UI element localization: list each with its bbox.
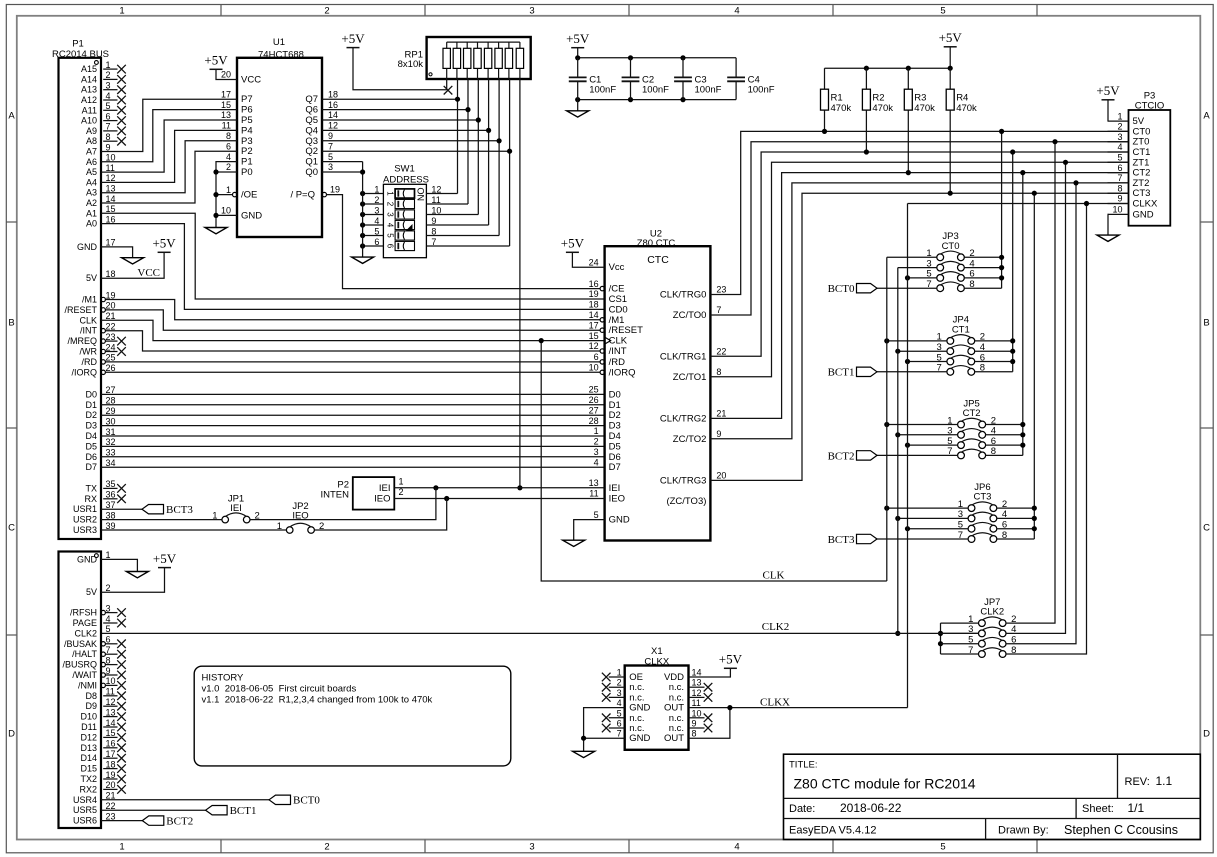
svg-text:11: 11 — [431, 195, 440, 205]
svg-text:v1.0 2018-06-05 First circui: v1.0 2018-06-05 First circuit boards — [202, 684, 357, 695]
svg-text:21: 21 — [106, 791, 116, 801]
wire /IORQ from P1 to U2 — [105, 371, 600, 373]
svg-text:6: 6 — [594, 352, 599, 362]
wire U2 ZC/TO2 to ZT2 row — [710, 183, 1128, 439]
svg-text:16: 16 — [106, 739, 116, 749]
svg-text:D4: D4 — [609, 431, 621, 442]
svg-text:/RD: /RD — [609, 357, 626, 368]
svg-text:USR1: USR1 — [73, 504, 97, 514]
power +5V at P3 pin 1 — [1096, 83, 1120, 121]
svg-text:A13: A13 — [81, 85, 97, 95]
svg-text:2: 2 — [399, 487, 404, 497]
IC U2 right pin names and numbers — [660, 285, 726, 507]
svg-text:30: 30 — [106, 416, 116, 426]
svg-text:+5V: +5V — [939, 30, 963, 45]
jumper JP2 IEO — [277, 501, 325, 533]
svg-text:ZC/TO2: ZC/TO2 — [673, 434, 707, 445]
svg-text:A14: A14 — [81, 74, 97, 84]
power +5V at capacitor rail — [566, 31, 590, 58]
svg-text:14: 14 — [589, 310, 599, 320]
svg-text:27: 27 — [106, 385, 116, 395]
svg-text:IEI: IEI — [609, 483, 621, 494]
svg-text:GND: GND — [629, 733, 650, 744]
svg-text:A4: A4 — [86, 177, 97, 187]
IC U2 Z80 CTC body — [605, 229, 711, 541]
svg-text:23: 23 — [106, 332, 116, 342]
svg-text:BCT1: BCT1 — [828, 367, 855, 379]
svg-text:12: 12 — [106, 697, 116, 707]
connector P1 pins 35-39 (TX,RX,USR1-USR3) — [73, 479, 126, 535]
svg-text:CLK/TRG3: CLK/TRG3 — [660, 475, 706, 486]
wire D1 bus from P1 to U2 — [101, 404, 605, 406]
wire USR2 to JP1 pin 1 — [101, 519, 222, 521]
ground symbol at P1 pin 17 — [101, 247, 144, 264]
svg-text:3: 3 — [529, 842, 534, 853]
svg-text:CLK: CLK — [79, 315, 97, 325]
svg-text:1: 1 — [617, 668, 622, 678]
svg-text:29: 29 — [106, 406, 116, 416]
wire CLK from P1 to U2 — [101, 320, 605, 340]
resistor R3 470k — [904, 68, 935, 175]
svg-text:A8: A8 — [86, 136, 97, 146]
svg-text:A5: A5 — [86, 167, 97, 177]
history note box — [194, 666, 511, 766]
svg-text:VCC: VCC — [241, 75, 261, 86]
wire JP3 pin 5 to CLKX select vertical — [905, 275, 937, 280]
dip switch SW1 ADDRESS body — [383, 164, 429, 258]
svg-text:BCT2: BCT2 — [828, 450, 855, 462]
wire IEO net P2 to U2 with junction — [394, 496, 604, 501]
svg-text:18: 18 — [106, 269, 116, 279]
ground at X1 pins 4 and 7 — [573, 708, 625, 758]
resistor R2 470k — [862, 68, 893, 154]
svg-text:/RD: /RD — [82, 357, 98, 367]
wire U2 CLK/TRG2 to CT2 row — [710, 173, 1128, 419]
svg-text:P3: P3 — [241, 136, 253, 147]
svg-text:3: 3 — [328, 162, 333, 172]
svg-text:8: 8 — [431, 226, 436, 236]
svg-text:Z80 CTC: Z80 CTC — [637, 238, 676, 249]
IC U2 left pin names and numbers — [589, 279, 644, 526]
svg-text:/HALT: /HALT — [72, 649, 97, 659]
svg-text:D6: D6 — [85, 452, 97, 462]
svg-text:A11: A11 — [82, 105, 97, 115]
wire JP7 to ZT2 row — [1006, 180, 1079, 643]
svg-text:11: 11 — [106, 163, 115, 173]
connector P4 extended bus body — [59, 552, 102, 829]
svg-text:2: 2 — [324, 842, 329, 853]
svg-text:22: 22 — [716, 347, 726, 357]
connector P3 pin stubs and names — [1108, 111, 1158, 220]
svg-text:CLKX: CLKX — [760, 696, 790, 708]
svg-text:P5: P5 — [241, 115, 253, 126]
svg-text:D15: D15 — [80, 764, 97, 774]
svg-text:3: 3 — [529, 6, 534, 17]
svg-text:CLK: CLK — [609, 336, 628, 347]
svg-text:26: 26 — [106, 363, 116, 373]
svg-text:2: 2 — [324, 6, 329, 17]
svg-text:7: 7 — [716, 305, 721, 315]
svg-text:22: 22 — [106, 801, 116, 811]
svg-text:Q5: Q5 — [305, 115, 318, 126]
svg-text:D1: D1 — [85, 400, 97, 410]
svg-text:4: 4 — [594, 457, 599, 467]
svg-text:CLK/TRG2: CLK/TRG2 — [660, 413, 706, 424]
wire U2 ZC/TO0 to ZT0 row — [710, 142, 1128, 315]
svg-text:28: 28 — [106, 396, 116, 406]
svg-text:Q4: Q4 — [305, 125, 318, 136]
svg-text:CT0: CT0 — [942, 241, 960, 252]
svg-text:USR2: USR2 — [73, 515, 97, 525]
svg-text:24: 24 — [589, 257, 599, 267]
svg-text:6: 6 — [106, 111, 111, 121]
svg-text:GND: GND — [77, 554, 98, 564]
svg-text:10: 10 — [692, 708, 702, 718]
svg-text:USR5: USR5 — [73, 805, 97, 815]
net tag BCT0 at USR4 — [101, 795, 320, 807]
wire A4 to U1 P4 — [101, 130, 237, 182]
svg-text:5V: 5V — [86, 273, 97, 283]
svg-text:R1: R1 — [831, 93, 843, 104]
svg-text:100nF: 100nF — [589, 85, 616, 96]
svg-text:13: 13 — [589, 478, 599, 488]
svg-text:BCT0: BCT0 — [293, 795, 320, 807]
svg-text:BCT1: BCT1 — [230, 805, 257, 817]
svg-text:D12: D12 — [80, 732, 97, 742]
svg-text:17: 17 — [589, 320, 599, 330]
header P2 INTEN body — [321, 476, 404, 509]
wire JP1 pin 2 up to IEI line — [250, 488, 436, 520]
wire JP7 to ZT0 row — [1006, 139, 1058, 623]
svg-text:3: 3 — [1117, 132, 1122, 142]
wire D7 bus from P1 to U2 — [101, 466, 605, 468]
svg-text:34: 34 — [106, 458, 116, 468]
wire /M1 from P1 to U2 — [105, 300, 600, 320]
svg-text:18: 18 — [328, 89, 338, 99]
svg-text:2: 2 — [594, 437, 599, 447]
svg-text:15: 15 — [589, 331, 599, 341]
vertical select line CLKX to JP pins 5 — [907, 204, 909, 708]
svg-text:5: 5 — [106, 101, 111, 111]
svg-text:CLK: CLK — [763, 569, 785, 581]
ground symbol at U2 pin 5 GND — [563, 520, 605, 547]
svg-text:35: 35 — [106, 479, 116, 489]
svg-text:CLK2: CLK2 — [74, 628, 97, 638]
wire U1 Q5 to RP1 pullup and SW1 — [322, 79, 481, 215]
svg-text:5: 5 — [1117, 153, 1122, 163]
wire A3 to U1 P3 — [101, 141, 237, 193]
svg-text:BCT2: BCT2 — [166, 815, 193, 827]
svg-text:/MREQ: /MREQ — [67, 336, 97, 346]
wire CLK2 net from P1 to JP7 with net label — [101, 621, 979, 633]
svg-text:U1: U1 — [273, 37, 285, 48]
IC U1 74HCT688 body — [237, 37, 322, 237]
svg-text:15: 15 — [106, 204, 116, 214]
net tag BCT3 to JP6 pin 7 — [828, 534, 969, 546]
svg-text:Sheet:: Sheet: — [1082, 803, 1114, 815]
svg-text:2: 2 — [386, 202, 395, 207]
svg-text:16: 16 — [589, 279, 599, 289]
wire /RD from P1 to U2 — [105, 361, 600, 363]
svg-text:USR3: USR3 — [73, 525, 97, 535]
wire JP3 right pins to CT0 net vertical — [964, 129, 1004, 288]
wire U1 Q4 to RP1 pullup and SW1 — [322, 79, 491, 225]
svg-text:10: 10 — [1112, 205, 1122, 215]
svg-text:+5V: +5V — [341, 31, 365, 46]
svg-text:SW1: SW1 — [394, 164, 415, 175]
svg-text:10: 10 — [106, 676, 116, 686]
svg-text:B: B — [1203, 317, 1209, 328]
svg-text:D5: D5 — [609, 441, 621, 452]
svg-text:CS1: CS1 — [609, 294, 627, 305]
svg-text:4: 4 — [106, 614, 111, 624]
svg-text:/BUSRQ: /BUSRQ — [62, 660, 97, 670]
wire JP4 pin 5 to CLKX select vertical — [905, 359, 947, 364]
svg-text:A2: A2 — [86, 198, 97, 208]
svg-text:INTEN: INTEN — [321, 489, 350, 500]
svg-text:D7: D7 — [85, 462, 97, 472]
svg-text:+5V: +5V — [719, 652, 743, 667]
wire U1 Q1 Q0 to ground rail at SW1 — [322, 162, 365, 258]
svg-text:GND: GND — [609, 515, 630, 526]
svg-text:470k: 470k — [831, 103, 852, 114]
net tag BCT2 at USR6 — [101, 815, 193, 827]
svg-text:5: 5 — [940, 6, 945, 17]
svg-text:9: 9 — [328, 131, 333, 141]
svg-text:/RFSH: /RFSH — [70, 608, 97, 618]
svg-text:/M1: /M1 — [609, 315, 625, 326]
svg-text:7: 7 — [617, 729, 622, 739]
svg-text:IEI: IEI — [230, 503, 242, 514]
wire IEI net P2 to U2 with junctions — [394, 485, 604, 490]
svg-text:Drawn By:: Drawn By: — [998, 825, 1049, 837]
wire A2 to U1 P2 — [101, 151, 237, 203]
svg-text:ZC/TO0: ZC/TO0 — [673, 310, 707, 321]
svg-text:32: 32 — [106, 437, 116, 447]
svg-text:A: A — [8, 110, 15, 121]
jumper JP4 CT1 — [937, 315, 986, 375]
svg-text:1: 1 — [226, 185, 231, 195]
wire /INT from P1 to U2 — [105, 331, 600, 351]
svg-text:13: 13 — [221, 110, 231, 120]
svg-text:ZC/TO1: ZC/TO1 — [673, 372, 707, 383]
svg-text:TITLE:: TITLE: — [789, 759, 818, 770]
svg-text:3: 3 — [374, 205, 379, 215]
svg-text:D2: D2 — [609, 410, 621, 421]
svg-text:8: 8 — [226, 131, 231, 141]
svg-text:7: 7 — [1117, 173, 1122, 183]
svg-text:2: 2 — [106, 583, 111, 593]
wire JP6 pin 1 to CLK select vertical — [884, 506, 968, 511]
svg-text:9: 9 — [106, 142, 111, 152]
capacitor C2 100nF — [622, 58, 670, 100]
power +5V at P4 pin 2 — [101, 551, 177, 592]
svg-text:+5V: +5V — [566, 31, 590, 46]
svg-text:GND: GND — [77, 242, 98, 252]
svg-text:RX2: RX2 — [79, 784, 97, 794]
svg-text:24: 24 — [106, 342, 116, 352]
svg-text:10: 10 — [106, 153, 116, 163]
svg-text:20: 20 — [716, 471, 726, 481]
svg-text:D3: D3 — [609, 421, 621, 432]
svg-text:D6: D6 — [609, 452, 621, 463]
svg-text:21: 21 — [716, 409, 726, 419]
svg-text:74HCT688: 74HCT688 — [258, 50, 304, 61]
svg-text:CTCIO: CTCIO — [1135, 101, 1165, 112]
svg-text:8: 8 — [1117, 183, 1122, 193]
svg-text:5: 5 — [594, 510, 599, 520]
svg-text:1: 1 — [374, 184, 379, 194]
svg-text:1: 1 — [594, 426, 599, 436]
svg-text:CLK2: CLK2 — [980, 607, 1004, 618]
svg-text:A10: A10 — [81, 116, 97, 126]
svg-text:12: 12 — [692, 688, 702, 698]
wire D3 bus from P1 to U2 — [101, 425, 605, 427]
resistor pack RP1 resistors — [398, 37, 531, 79]
svg-text:Q3: Q3 — [305, 136, 318, 147]
svg-text:Vcc: Vcc — [609, 262, 625, 273]
svg-text:13: 13 — [106, 707, 116, 717]
capacitor rail top and bottom — [575, 55, 736, 102]
svg-text:3: 3 — [617, 688, 622, 698]
svg-text:8: 8 — [692, 729, 697, 739]
svg-text:19: 19 — [106, 290, 116, 300]
connector P1 pins 17-26 (GND,5V,control signals) — [64, 238, 125, 378]
wire U2 CLK/TRG0 to CT0 row — [710, 131, 1128, 294]
capacitor C3 100nF — [674, 58, 722, 100]
svg-text:14: 14 — [328, 110, 338, 120]
svg-text:28: 28 — [589, 416, 599, 426]
svg-text:IEI: IEI — [379, 483, 391, 494]
svg-text:7: 7 — [328, 141, 333, 151]
wire U2 CLK/TRG3 to CT3 row — [710, 193, 1128, 480]
svg-text:8: 8 — [106, 132, 111, 142]
svg-text:A: A — [1203, 110, 1210, 121]
svg-text:1: 1 — [106, 60, 111, 70]
svg-text:RX: RX — [84, 494, 97, 504]
wire U1 Q3 to RP1 pullup and SW1 — [322, 79, 502, 236]
ground symbol below C1 — [567, 100, 589, 118]
svg-text:4: 4 — [226, 152, 231, 162]
svg-text:4: 4 — [374, 216, 379, 226]
svg-text:CLKX: CLKX — [644, 656, 669, 667]
svg-text:IEO: IEO — [292, 511, 308, 522]
svg-text:5: 5 — [617, 708, 622, 718]
svg-text:/INT: /INT — [80, 326, 98, 336]
svg-text:9: 9 — [106, 666, 111, 676]
wire U2 ZC/TO1 to ZT1 row — [710, 162, 1128, 376]
wire D6 bus from P1 to U2 — [101, 456, 605, 458]
svg-text:P2: P2 — [241, 146, 253, 157]
wire D2 bus from P1 to U2 — [101, 414, 605, 416]
wire D5 bus from P1 to U2 — [101, 445, 605, 447]
wire JP5 right pins to CT2 net vertical — [986, 170, 1026, 455]
svg-text:P1: P1 — [72, 38, 84, 49]
wire JP6 pin 5 to CLKX select vertical — [905, 526, 968, 531]
svg-text:5: 5 — [106, 624, 111, 634]
title block — [784, 754, 1201, 839]
svg-text:D2: D2 — [85, 410, 97, 420]
connector P1 pins 27-34 (D0-D7) — [85, 385, 115, 472]
svg-text:D4: D4 — [85, 431, 97, 441]
svg-text:CT3: CT3 — [973, 492, 991, 503]
capacitor C1 100nF — [569, 58, 617, 100]
svg-text:11: 11 — [589, 489, 598, 499]
svg-text:GND: GND — [241, 210, 262, 221]
svg-text:D: D — [8, 728, 15, 739]
svg-text:/RESET: /RESET — [609, 325, 644, 336]
wire U1 Q6 to RP1 pullup and SW1 — [322, 79, 471, 204]
svg-text:14: 14 — [106, 718, 116, 728]
svg-text:3: 3 — [106, 603, 111, 613]
svg-text:470k: 470k — [914, 103, 935, 114]
svg-text:D5: D5 — [85, 441, 97, 451]
connector P3 CTCIO body — [1129, 91, 1171, 226]
svg-text:v1.1 2018-06-22 R1,2,3,4 cha: v1.1 2018-06-22 R1,2,3,4 changed from 10… — [202, 695, 433, 706]
svg-text:6: 6 — [386, 244, 395, 249]
svg-text:3: 3 — [594, 447, 599, 457]
ground chain at U1 pins P1,P0,/OE,GND — [205, 162, 237, 234]
svg-text:15: 15 — [106, 728, 116, 738]
svg-text:A1: A1 — [86, 208, 97, 218]
svg-text:4: 4 — [1117, 142, 1122, 152]
wire JP6 right pins to CT3 net vertical — [997, 191, 1037, 539]
svg-text:REV:: REV: — [1125, 776, 1150, 788]
svg-text:/NMI: /NMI — [78, 680, 97, 690]
svg-text:/BUSAK: /BUSAK — [64, 639, 97, 649]
svg-text:PAGE: PAGE — [73, 618, 97, 628]
svg-text:R3: R3 — [914, 93, 926, 104]
svg-text:RC2014 BUS: RC2014 BUS — [52, 49, 109, 60]
svg-text:13: 13 — [106, 184, 116, 194]
svg-text:A3: A3 — [86, 188, 97, 198]
net tag BCT3 at USR1 — [101, 504, 193, 516]
svg-text:A12: A12 — [81, 95, 97, 105]
svg-text:13: 13 — [692, 678, 702, 688]
wire USR3 to JP2 pin 1 — [101, 529, 286, 531]
svg-text:D11: D11 — [81, 722, 97, 732]
svg-text:14: 14 — [692, 668, 702, 678]
svg-text:5: 5 — [328, 152, 333, 162]
svg-text:TX2: TX2 — [80, 774, 97, 784]
power +5V at X1 pin 14 VDD — [689, 652, 743, 677]
power +5V above R4 — [939, 30, 963, 68]
svg-text:(ZC/TO3): (ZC/TO3) — [666, 496, 706, 507]
svg-text:A9: A9 — [86, 126, 97, 136]
svg-text:D1: D1 — [609, 400, 621, 411]
svg-text:23: 23 — [106, 811, 116, 821]
svg-text:4: 4 — [386, 223, 395, 228]
svg-text:+5V: +5V — [152, 236, 176, 251]
svg-text:CLKX: CLKX — [1133, 199, 1158, 210]
svg-text:14: 14 — [106, 194, 116, 204]
wire X1 OUT pins to CLKX riser with net label — [689, 696, 908, 738]
svg-text:D0: D0 — [85, 389, 97, 399]
svg-text:11: 11 — [692, 698, 701, 708]
connector P4 pins — [62, 550, 125, 825]
svg-text:D13: D13 — [80, 743, 97, 753]
jumper JP3 CT0 — [926, 231, 974, 291]
wire JP4 pin 3 to CLK2 select vertical — [895, 349, 947, 354]
dip switch SW1 switch elements — [386, 189, 415, 251]
jumper JP1 IEI — [212, 493, 260, 523]
svg-text:GND: GND — [1133, 209, 1154, 220]
svg-text:Q0: Q0 — [305, 167, 318, 178]
wire JP7 to CLKX row — [1006, 201, 1089, 654]
IC U1 right pin names and numbers — [290, 89, 340, 200]
svg-text:A7: A7 — [86, 147, 97, 157]
svg-text:5V: 5V — [86, 587, 97, 597]
